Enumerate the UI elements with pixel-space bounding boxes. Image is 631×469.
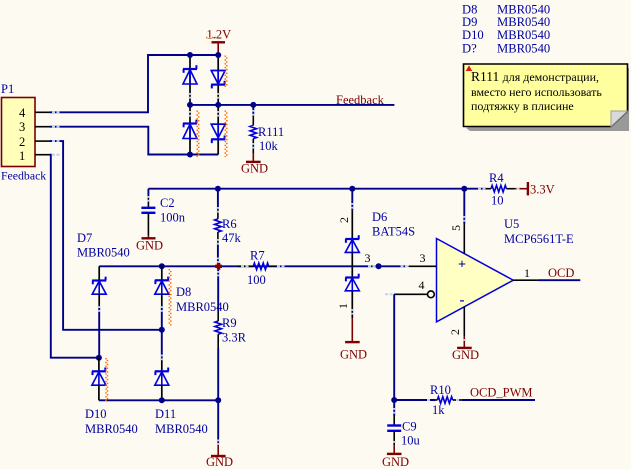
note text row D8 MBR0540: [462, 3, 550, 17]
capacitor C9: [387, 400, 420, 448]
svg-text:4: 4: [19, 106, 26, 120]
svg-text:4: 4: [419, 278, 425, 292]
wire P1 pin2 down to D8/D11 mid junction: [50, 141, 162, 330]
note text row D9 MBR0540: [462, 15, 550, 29]
svg-text:U5: U5: [504, 217, 519, 231]
junction D11 bottom: [159, 397, 165, 403]
svg-text:D11: D11: [155, 407, 176, 421]
svg-text:C9: C9: [402, 420, 417, 434]
P1 pin 3: [19, 120, 50, 134]
wire opamp pin4 down to R10/C9: [393, 294, 395, 400]
power port 3.3V: [515, 182, 555, 197]
svg-text:3.3V: 3.3V: [530, 183, 555, 197]
svg-text:R6: R6: [222, 217, 237, 231]
svg-text:Feedback: Feedback: [336, 93, 385, 107]
resistor R111: [250, 105, 284, 154]
svg-text:2: 2: [337, 217, 351, 223]
svg-text:100n: 100n: [160, 211, 186, 225]
svg-text:D7: D7: [77, 231, 92, 245]
compile marker bridge top-right: [225, 56, 227, 88]
connector P1 body: [1, 82, 46, 183]
svg-text:10u: 10u: [401, 434, 421, 448]
wire bottom rail D10/D11/R9: [99, 399, 218, 401]
svg-text:D6: D6: [372, 210, 387, 224]
svg-text:MBR0540: MBR0540: [176, 300, 229, 314]
dual diode D6 BAT54S: [336, 189, 415, 318]
red 4-way junction at R6/R9 on main rail: [215, 263, 222, 270]
ground for op-amp: [452, 337, 479, 362]
compile marker D10: [106, 358, 108, 401]
bridge left column pins: [189, 55, 191, 155]
svg-text:10: 10: [491, 194, 504, 208]
svg-text:вместо него использовать: вместо него использовать: [471, 85, 602, 99]
svg-text:GND: GND: [241, 162, 268, 176]
svg-text:MBR0540: MBR0540: [85, 422, 138, 436]
svg-text:D8: D8: [176, 285, 191, 299]
svg-text:GND: GND: [340, 348, 367, 362]
ground for C9: [382, 445, 409, 469]
svg-text:GND: GND: [206, 455, 233, 469]
junction R10/C9: [391, 397, 397, 403]
ground for C2: [136, 236, 163, 253]
resistor R9: [215, 270, 247, 401]
svg-text:5: 5: [449, 225, 463, 231]
svg-text:MCP6561T-E: MCP6561T-E: [504, 232, 574, 246]
note text row D10 MBR0540: [462, 28, 550, 42]
svg-text:C2: C2: [160, 196, 175, 210]
svg-text:100: 100: [247, 273, 266, 287]
svg-text:GND: GND: [382, 455, 409, 469]
compile marker bridge bottom-right: [225, 111, 227, 158]
svg-text:2: 2: [19, 135, 25, 149]
junction D6 pin2 top: [349, 186, 355, 192]
svg-text:+: +: [458, 258, 466, 273]
resistor R10: [430, 383, 462, 417]
bridge diode top-left (cathode up): [183, 65, 197, 84]
svg-text:-: -: [460, 293, 465, 309]
svg-text:1: 1: [19, 149, 25, 163]
wire P1 pin3 to bridge bottom rail: [50, 127, 219, 155]
diode D8: [155, 266, 229, 330]
capacitor C2: [141, 189, 185, 236]
wire R10/C9 junction rail: [394, 399, 435, 401]
svg-text:R111: R111: [258, 125, 284, 139]
junction R111 top: [250, 102, 256, 108]
compile marker D8: [169, 269, 171, 326]
diode D10: [85, 358, 138, 436]
svg-text:1: 1: [336, 303, 350, 309]
svg-text:1.2V: 1.2V: [207, 28, 232, 42]
svg-text:OCD_PWM: OCD_PWM: [470, 386, 533, 400]
op-amp pin 5 (V+): [449, 189, 464, 254]
svg-text:MBR0540: MBR0540: [497, 28, 550, 42]
diode D11: [155, 330, 208, 436]
svg-text:2: 2: [448, 329, 462, 335]
svg-text:D10: D10: [85, 407, 107, 421]
svg-text:3: 3: [420, 251, 426, 265]
P1 pin 1: [19, 149, 50, 163]
svg-text:R111 для демонстрации,: R111 для демонстрации,: [471, 69, 599, 84]
ground for R111: [241, 154, 268, 176]
junction bridge mid-left: [187, 102, 193, 108]
op-amp pin 1 (out): [513, 266, 538, 280]
compile marker bridge bottom-left: [197, 111, 199, 158]
svg-text:47k: 47k: [222, 231, 242, 245]
junction R6 top: [215, 186, 221, 192]
P1 pin 2: [19, 135, 50, 149]
svg-text:10k: 10k: [259, 139, 279, 153]
svg-text:3.3R: 3.3R: [222, 331, 247, 345]
junction bridge top-right: [215, 52, 221, 58]
junction D10 top / pin1 wire: [96, 355, 102, 361]
ground for D6: [340, 318, 367, 362]
wire P1 pin4 to bridge top rail: [50, 55, 219, 112]
svg-text:1k: 1k: [432, 403, 445, 417]
wire OCD_PWM: [462, 399, 535, 401]
resistor R4: [486, 171, 515, 208]
op-amp U5 MCP6561T-E: [437, 217, 575, 322]
svg-text:GND: GND: [452, 348, 479, 362]
resistor R6: [215, 189, 242, 267]
bridge right column pins: [217, 55, 219, 155]
diode D7: [77, 231, 130, 358]
svg-text:R4: R4: [489, 171, 504, 185]
wire OCD output: [538, 279, 580, 281]
junction D11 top: [159, 327, 165, 333]
svg-text:MBR0540: MBR0540: [155, 422, 208, 436]
op-amp pin 4 (in-) with bubble: [394, 278, 434, 298]
yellow sticky note: [464, 64, 630, 131]
junction bridge mid-right: [215, 102, 221, 108]
wire main rail D7 to opamp pin3: [99, 265, 406, 267]
note text row D? MBR0540: [462, 41, 550, 55]
junction bridge top-left: [187, 52, 193, 58]
junction opamp pin5 / R4: [461, 186, 467, 192]
junction bridge bottom-left: [187, 152, 193, 158]
P1 pin 4: [19, 106, 50, 120]
junction D6 pin3 on main rail: [376, 263, 382, 269]
junction R9 bottom: [215, 397, 221, 403]
svg-text:Feedback: Feedback: [1, 169, 46, 183]
svg-text:MBR0540: MBR0540: [497, 41, 550, 55]
svg-text:подтяжку в плисине: подтяжку в плисине: [471, 99, 574, 113]
op-amp pin 3 (in+): [409, 251, 437, 266]
svg-text:P1: P1: [1, 82, 14, 96]
bridge diode bottom-left (cathode up): [183, 120, 197, 139]
svg-text:D?: D?: [462, 41, 477, 55]
svg-text:OCD: OCD: [548, 266, 574, 280]
svg-text:BAT54S: BAT54S: [372, 225, 415, 239]
ground for R9: [206, 400, 233, 469]
wire mid supply rail (C2/R6/D6/U5/R4): [148, 188, 486, 190]
svg-text:3: 3: [19, 120, 25, 134]
bridge diode top-right (cathode down): [211, 71, 225, 89]
wire bridge mid rail to Feedback: [190, 104, 394, 106]
svg-text:D10: D10: [462, 28, 484, 42]
pin hotspot markers: [52, 93, 520, 445]
resistor R7: [238, 249, 276, 288]
svg-text:3: 3: [365, 251, 371, 265]
wire P1 pin1 down to D10 top junction: [50, 155, 99, 358]
op-amp pin 2 (V-): [448, 307, 464, 337]
junction D8 top: [159, 263, 165, 269]
svg-text:MBR0540: MBR0540: [77, 246, 130, 260]
svg-text:R9: R9: [222, 316, 237, 330]
svg-text:R10: R10: [430, 383, 451, 397]
power port 1.2V: [206, 28, 231, 56]
svg-text:1: 1: [524, 266, 530, 280]
bridge diode bottom-right (cathode down): [211, 124, 225, 143]
svg-text:R7: R7: [250, 249, 265, 263]
svg-text:GND: GND: [136, 239, 163, 253]
